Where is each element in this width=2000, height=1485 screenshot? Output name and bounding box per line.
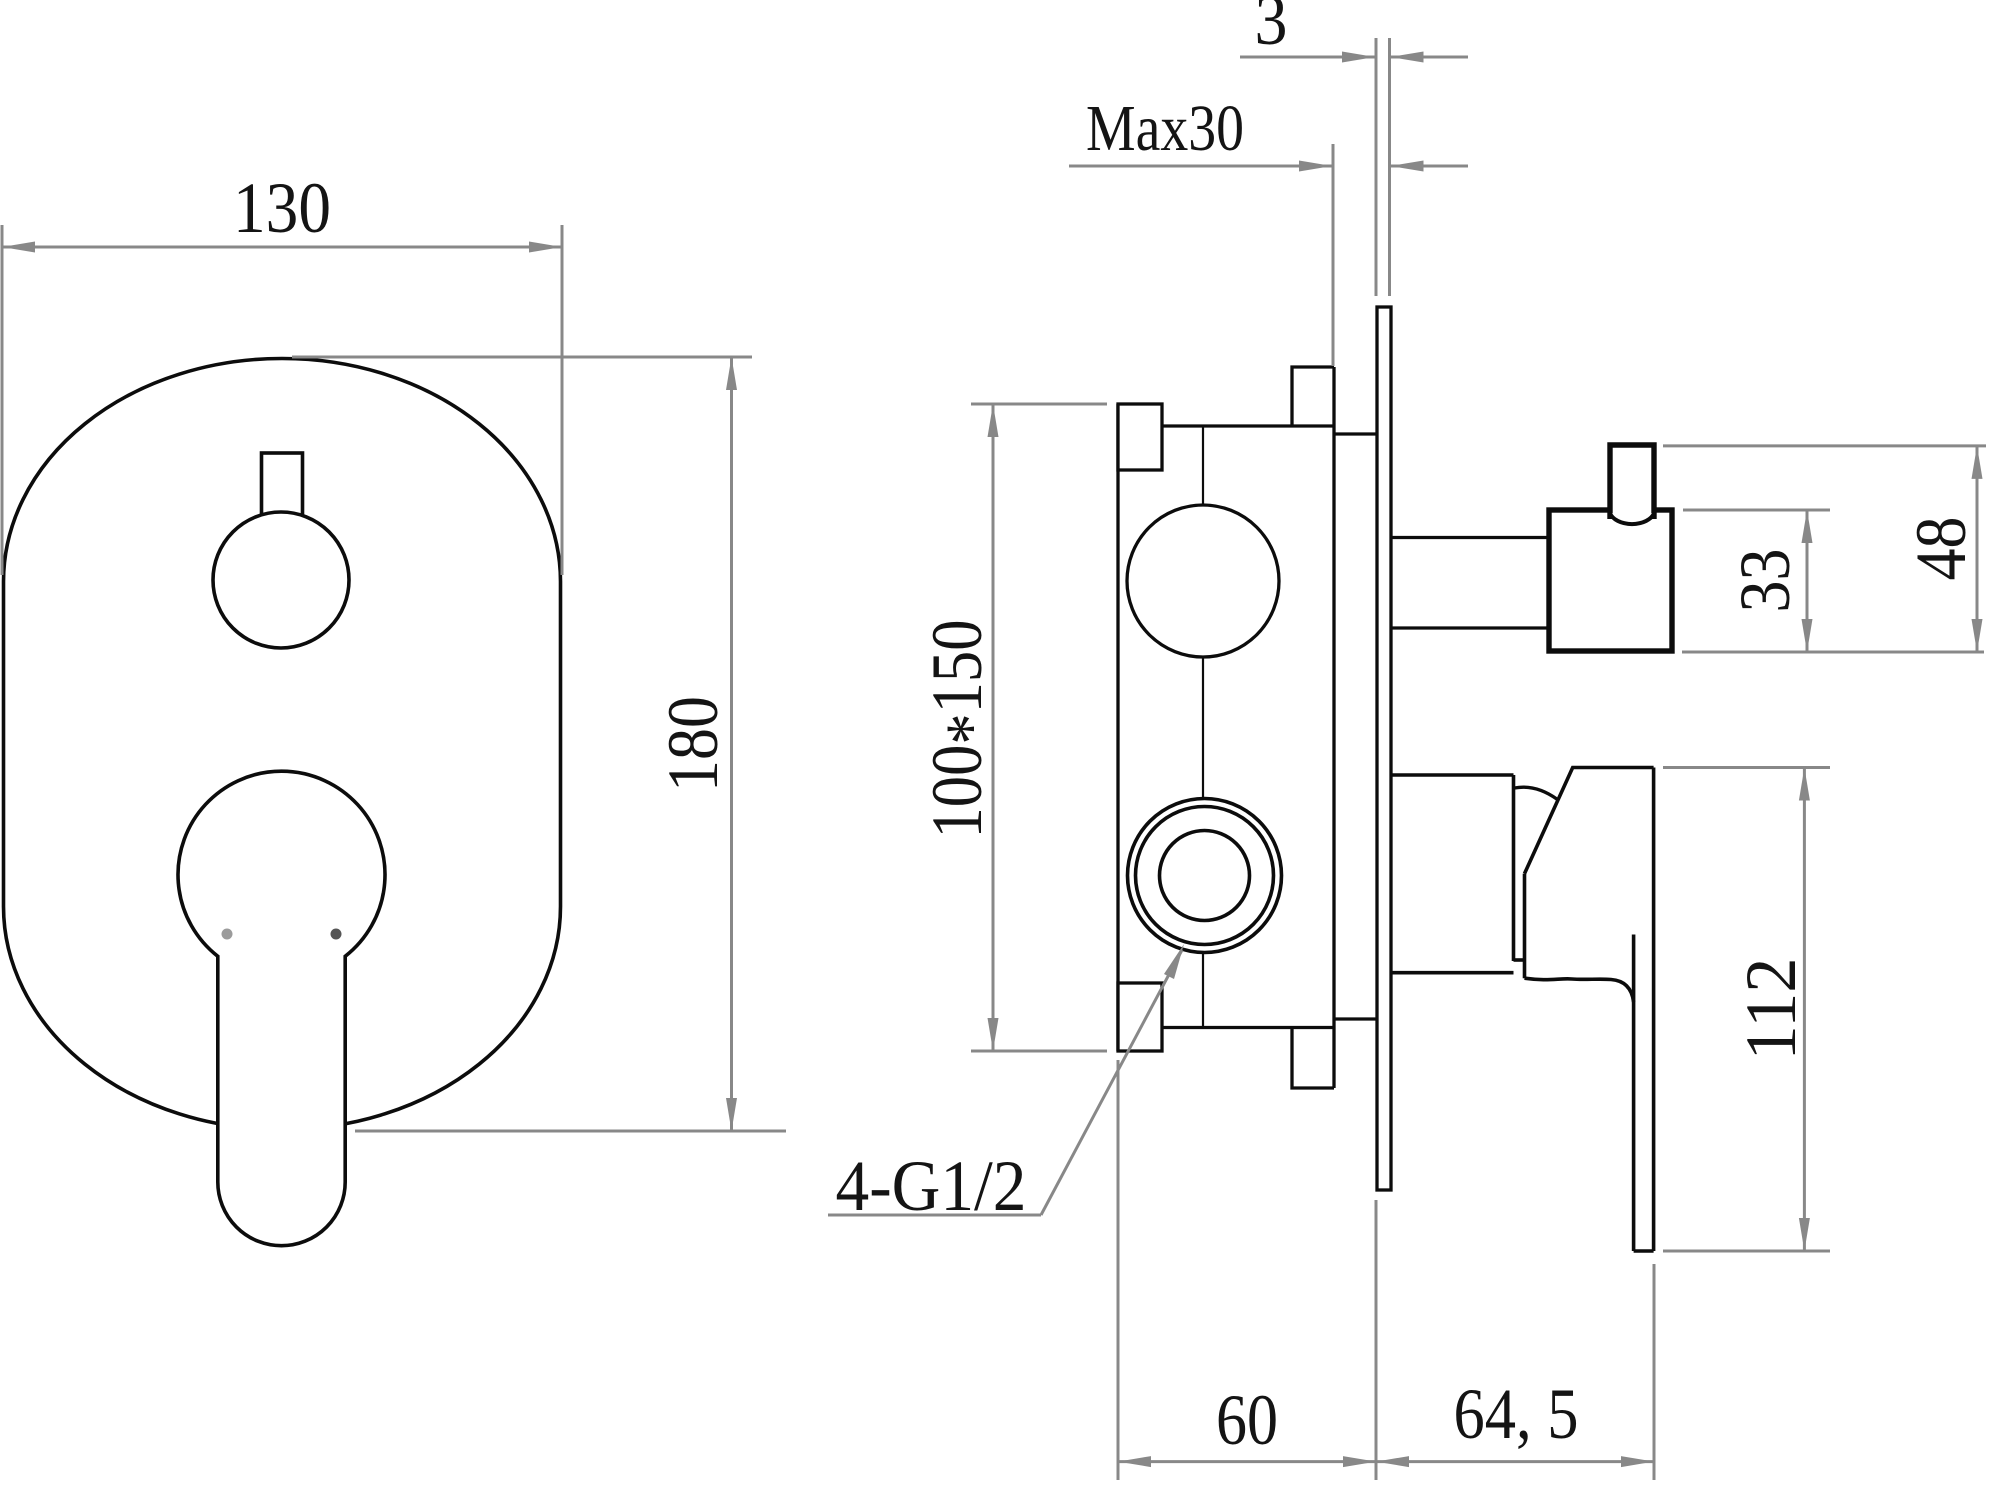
dim 48 arrows — [1972, 446, 1983, 479]
dim line 60 + 64,5 — [1118, 1460, 1654, 1463]
svg-text:112: 112 — [1731, 958, 1811, 1061]
knob stem base arc — [1610, 513, 1654, 524]
lever underside S-curve — [1525, 978, 1634, 1002]
handle dot right — [331, 929, 342, 940]
dim 48: extension lines — [1663, 446, 1986, 652]
valve body box — [1162, 367, 1377, 1088]
mounting bracket face line — [1116, 404, 1119, 1051]
centerline segments — [1202, 426, 1204, 1028]
lever inner edge — [1632, 935, 1636, 1252]
dim 64,5 arrows — [1376, 1456, 1409, 1467]
label 4-G1/2 leader — [828, 950, 1182, 1215]
bracket bottom tab — [1118, 983, 1162, 1051]
svg-text:60: 60 — [1216, 1380, 1278, 1460]
dim 180: extension lines — [292, 357, 786, 1131]
bracket top tab — [1118, 404, 1162, 470]
body top tab — [1292, 367, 1334, 426]
dim 3: extension lines — [1240, 38, 1468, 296]
body bottom tab — [1292, 1028, 1334, 1089]
dim 33: extension line — [1683, 510, 1830, 652]
lever handle (front) — [178, 771, 385, 1245]
body top edge — [1162, 424, 1334, 427]
dim Max30: extension line — [1069, 144, 1468, 366]
lever outer edge — [1652, 768, 1656, 1252]
svg-text:130: 130 — [233, 168, 331, 248]
dim 130: dimension line — [2, 246, 562, 249]
dim 112: extension lines — [1663, 768, 1830, 1252]
lower port circle inner — [1160, 831, 1250, 921]
dim 48 line — [1976, 446, 1979, 652]
knob stem (side) — [1610, 445, 1654, 519]
dim 33 line — [1806, 510, 1809, 652]
svg-text:100*150: 100*150 — [917, 620, 1011, 839]
oval faceplate — [4, 359, 561, 1130]
cartridge dome arc — [1515, 787, 1558, 799]
svg-text:48: 48 — [1901, 517, 1981, 581]
wall plate (side) — [1377, 307, 1391, 1190]
handle adapter (side) — [1391, 775, 1525, 973]
lever top + slant + neck — [1525, 768, 1654, 874]
svg-text:180: 180 — [653, 696, 733, 792]
flange bottom edge — [1334, 1017, 1377, 1020]
dim 100*150 line — [992, 404, 995, 1051]
flange top edge — [1334, 432, 1377, 435]
dim 33 arrows — [1802, 510, 1813, 543]
lever handle (side) — [1525, 768, 1654, 1252]
dim 3 line right part — [1391, 56, 1469, 59]
dim 180: dimension line — [730, 357, 733, 1131]
dim 130 arrows — [2, 242, 35, 253]
dim 130: extension lines — [2, 225, 562, 575]
dim 180 arrows — [726, 357, 737, 390]
diverter knob circle — [213, 512, 349, 648]
lower port circle outer — [1128, 799, 1282, 953]
label 4-G1/2 leader arrow — [1164, 944, 1184, 979]
svg-text:Max30: Max30 — [1086, 92, 1244, 165]
dim Max30 line left part — [1069, 165, 1332, 168]
knob body (side) — [1549, 510, 1672, 651]
svg-text:3: 3 — [1255, 0, 1288, 60]
dim Max30 arrows — [1299, 161, 1332, 172]
dim 3 arrows — [1342, 52, 1375, 63]
dim 112 arrows — [1799, 768, 1810, 801]
svg-text:4-G1/2: 4-G1/2 — [836, 1146, 1027, 1226]
svg-text:64, 5: 64, 5 — [1454, 1374, 1579, 1454]
lower port circle middle — [1136, 807, 1274, 945]
lever bottom edge — [1634, 1249, 1654, 1253]
upper port circle — [1127, 505, 1279, 657]
dim 3 line left part — [1240, 56, 1375, 59]
svg-text:33: 33 — [1725, 549, 1805, 613]
diverter knob stem — [262, 453, 303, 523]
dim 100*150: extension lines — [971, 404, 1107, 1051]
body bottom edge — [1162, 1026, 1334, 1029]
handle dot left — [222, 929, 233, 940]
knob pipe — [1391, 538, 1549, 629]
body right edge — [1332, 367, 1335, 1088]
dim 112 line — [1803, 768, 1806, 1252]
dim 60 arrows — [1118, 1456, 1151, 1467]
dim Max30 line right part — [1391, 165, 1469, 168]
bottom dims 60 and 64,5: extension lines — [1118, 1060, 1654, 1480]
dim 100*150 arrows — [988, 404, 999, 437]
